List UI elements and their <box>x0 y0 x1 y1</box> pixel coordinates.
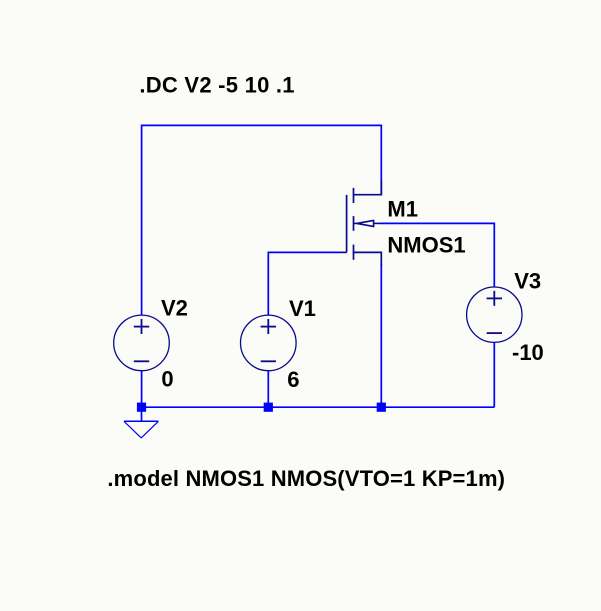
wire V1 top to gate <box>268 252 340 315</box>
wire V2 bottom <box>141 371 143 407</box>
ground <box>124 407 158 438</box>
text value 0 <box>161 366 173 391</box>
svg-text:6: 6 <box>287 367 299 392</box>
svg-text:V2: V2 <box>161 295 188 320</box>
svg-text:NMOS1: NMOS1 <box>387 232 465 257</box>
transistor M1 NMOS4 body <box>340 181 381 267</box>
wire V3 bottom <box>493 342 495 407</box>
svg-text:M1: M1 <box>387 197 418 222</box>
junction node V1 <box>264 403 273 412</box>
wire top rail <box>142 124 382 126</box>
wire left vertical V2 top <box>141 125 143 316</box>
text .DC directive <box>139 73 294 98</box>
text value -10 <box>512 340 544 365</box>
junction node source <box>377 403 386 412</box>
svg-text:.DC V2 -5 10 .1: .DC V2 -5 10 .1 <box>139 73 294 98</box>
voltage source V3 symbol <box>467 287 522 342</box>
text label V2 <box>161 295 188 320</box>
svg-text:V3: V3 <box>514 269 541 294</box>
voltage source V1 symbol <box>240 315 296 371</box>
junction node V2/ground <box>137 403 146 412</box>
wire bottom rail <box>142 406 495 408</box>
wire bulk to V3 top <box>381 223 495 287</box>
text label M1 <box>387 197 418 222</box>
voltage source V2 symbol <box>114 315 170 371</box>
text label V1 <box>289 296 316 321</box>
wire source to rail <box>380 264 382 407</box>
svg-text:.model NMOS1 NMOS(VTO=1 KP=1m): .model NMOS1 NMOS(VTO=1 KP=1m) <box>107 466 505 491</box>
text label V3 <box>514 269 541 294</box>
transistor M1 bulk arrow <box>354 220 382 228</box>
text label NMOS1 <box>387 232 465 257</box>
svg-text:-10: -10 <box>512 340 544 365</box>
svg-text:0: 0 <box>161 366 173 391</box>
wire V1 bottom <box>267 371 269 407</box>
svg-text:V1: V1 <box>289 296 316 321</box>
text .model directive <box>107 466 505 491</box>
wire drain vertical <box>380 125 382 195</box>
text value 6 <box>287 367 299 392</box>
